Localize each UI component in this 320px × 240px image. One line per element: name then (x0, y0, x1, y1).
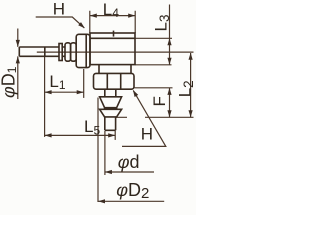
svg-text:L3: L3 (152, 15, 172, 32)
svg-text:L1: L1 (49, 72, 65, 92)
svg-text:L4: L4 (103, 0, 119, 20)
svg-text:L2: L2 (176, 80, 196, 97)
svg-text:F: F (150, 96, 169, 106)
svg-text:H: H (53, 0, 65, 18)
svg-text:φD1: φD1 (0, 66, 19, 98)
svg-text:φd: φd (118, 152, 140, 172)
svg-text:H: H (141, 125, 153, 144)
svg-text:φD2: φD2 (116, 180, 149, 202)
